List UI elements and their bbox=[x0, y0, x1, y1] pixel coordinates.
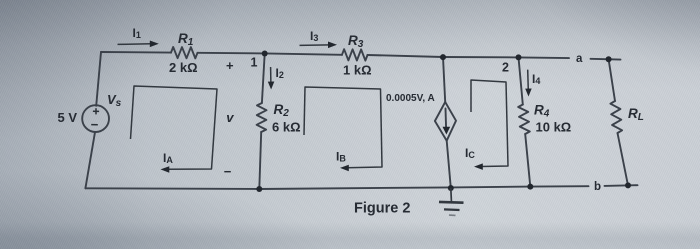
svg-text:I2: I2 bbox=[276, 66, 284, 80]
wire R2 to bottom bbox=[259, 132, 261, 189]
wire at terminal b bbox=[605, 184, 638, 187]
svg-text:b: b bbox=[594, 181, 601, 193]
current arrow I3 bbox=[300, 44, 331, 47]
svg-text:IC: IC bbox=[465, 146, 475, 160]
arrowhead I1 bbox=[150, 41, 159, 48]
wire R4 to bottom bbox=[525, 134, 530, 187]
resistor R3 bbox=[342, 49, 368, 60]
svg-text:1 kΩ: 1 kΩ bbox=[343, 63, 372, 78]
svg-text:I1: I1 bbox=[133, 26, 141, 40]
svg-text:2: 2 bbox=[502, 61, 509, 75]
wire node 2 to terminal a bbox=[519, 56, 570, 59]
resistor RL bbox=[610, 101, 622, 133]
svg-text:IB: IB bbox=[336, 150, 346, 164]
mesh arrow IB loop bbox=[304, 87, 382, 168]
wire left branch upper (corner to source) bbox=[96, 52, 101, 106]
svg-text:R1: R1 bbox=[178, 31, 194, 48]
svg-text:2 kΩ: 2 kΩ bbox=[169, 60, 198, 75]
resistor R2 bbox=[257, 103, 267, 132]
dep-source bottom junction dot bbox=[448, 185, 454, 191]
svg-text:6 kΩ: 6 kΩ bbox=[272, 120, 301, 135]
svg-text:I4: I4 bbox=[532, 72, 540, 86]
voltage source Vs bbox=[82, 105, 109, 132]
wire bottom bbox=[85, 186, 588, 189]
svg-text:I3: I3 bbox=[310, 29, 318, 43]
wire dep-source bottom lead bbox=[447, 141, 451, 188]
dependent source U1 diamond bbox=[435, 102, 456, 141]
terminal b dot bbox=[625, 182, 631, 188]
R2 bottom junction dot bbox=[256, 186, 262, 192]
svg-text:Figure 2: Figure 2 bbox=[354, 201, 410, 217]
svg-text:Vs: Vs bbox=[107, 92, 122, 109]
current arrow I1 bbox=[118, 43, 152, 46]
dep-source top junction dot bbox=[440, 54, 446, 60]
wire R3 to dep-source node bbox=[368, 55, 444, 57]
resistor R1 bbox=[171, 47, 198, 58]
arrowhead IA bbox=[161, 166, 170, 173]
wire RL to terminal b bbox=[618, 133, 629, 185]
arrowhead I2 bbox=[268, 82, 275, 90]
svg-text:R2: R2 bbox=[274, 102, 290, 119]
arrowhead IC bbox=[474, 163, 483, 170]
wire node 1 to R3 bbox=[265, 53, 342, 54]
node 1 junction dot bbox=[262, 51, 268, 57]
mesh arrow IC loop bbox=[471, 80, 508, 167]
arrowhead dep-source internal bbox=[443, 127, 451, 135]
svg-text:R3: R3 bbox=[348, 33, 364, 50]
svg-text:10 kΩ: 10 kΩ bbox=[536, 120, 572, 135]
svg-text:5 V: 5 V bbox=[58, 110, 78, 125]
wire at terminal a bbox=[591, 58, 621, 61]
voltage source polarity marks bbox=[91, 108, 99, 125]
wire left branch lower (source to bottom corner) bbox=[85, 132, 95, 188]
wire terminal a to RL bbox=[609, 59, 615, 101]
node 2 junction dot bbox=[516, 54, 522, 60]
wire node 2 to R4 bbox=[519, 57, 523, 104]
svg-text:0.0005V, A: 0.0005V, A bbox=[386, 93, 435, 104]
current arrow I4 bbox=[527, 70, 530, 91]
wire dep-source node to node 2 bbox=[443, 56, 519, 58]
svg-text:a: a bbox=[576, 53, 583, 65]
arrowhead I4 bbox=[525, 89, 532, 97]
svg-text:R4: R4 bbox=[534, 103, 550, 120]
resistor R4 bbox=[518, 105, 530, 135]
ground bbox=[439, 188, 464, 215]
svg-text:v: v bbox=[226, 110, 234, 125]
svg-text:RL: RL bbox=[628, 106, 644, 123]
wire top-left segment bbox=[101, 51, 171, 54]
svg-text:−: − bbox=[224, 164, 232, 179]
mesh arrow IA loop bbox=[131, 86, 218, 169]
svg-text:1: 1 bbox=[251, 56, 258, 70]
wire R1 to node 1 bbox=[198, 52, 265, 55]
R4 bottom junction dot bbox=[527, 184, 533, 190]
svg-text:IA: IA bbox=[163, 151, 173, 165]
arrowhead I3 bbox=[328, 42, 337, 49]
wire node 1 to R2 bbox=[262, 53, 265, 103]
terminal a dot bbox=[606, 56, 612, 62]
arrowhead IB bbox=[340, 165, 349, 172]
wire dep-source top lead bbox=[443, 57, 445, 102]
dep-source internal arrow bbox=[445, 109, 448, 129]
current arrow I2 bbox=[270, 67, 272, 84]
svg-text:+: + bbox=[226, 58, 234, 73]
